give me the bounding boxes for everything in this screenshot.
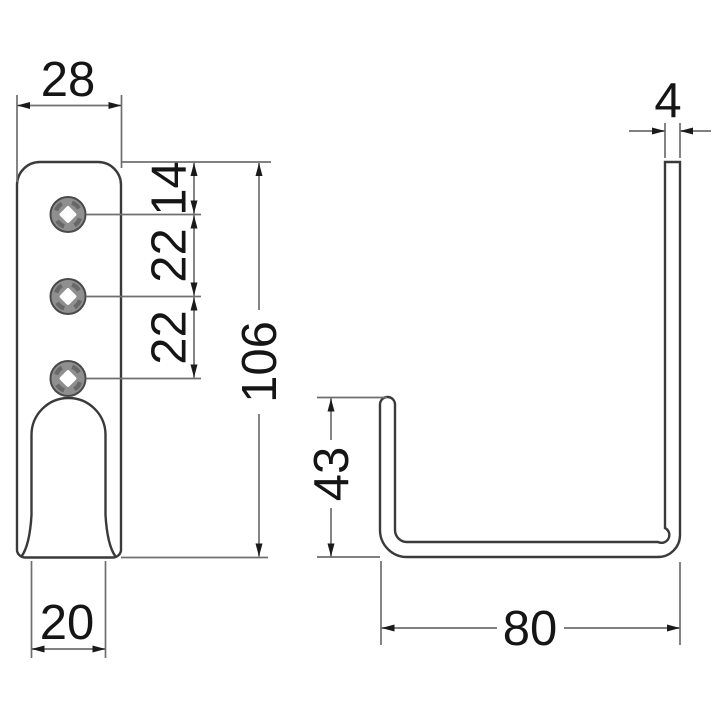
dimension 4: dimension line with outside arrows [629, 130, 711, 132]
svg-text:106: 106 [233, 321, 287, 403]
top edge extension line to the right [121, 161, 271, 163]
side view: hook profile (sheet cross-section) [380, 162, 680, 557]
svg-text:43: 43 [305, 447, 359, 502]
svg-text:22: 22 [143, 310, 197, 365]
dimension 20: dimension line with arrows [32, 648, 106, 650]
dimension 106: dimension line with arrows [258, 163, 260, 557]
screw hole 2 [51, 279, 86, 314]
svg-text:20: 20 [40, 596, 95, 650]
svg-text:14: 14 [143, 161, 197, 216]
dimension 20: extension lines [32, 561, 106, 658]
svg-text:28: 28 [41, 53, 96, 107]
dimension 43: dimension line with arrows [330, 398, 332, 557]
dimension 28: extension lines [17, 95, 122, 182]
hole 3 leader line [86, 378, 201, 380]
dimension 43: extension lines [317, 398, 387, 558]
screw hole 1 [51, 197, 86, 232]
svg-text:4: 4 [654, 74, 681, 128]
dimension 80: dimension line with arrows [381, 627, 680, 629]
dimension 4: extension lines [665, 123, 680, 158]
hole 1 leader line [86, 214, 201, 216]
dimension 28: dimension line with arrows [17, 105, 122, 107]
bottom edge extension line to the right [121, 557, 268, 559]
hole 2 leader line [86, 296, 201, 298]
chain dimension line 14/22/22 [193, 162, 195, 379]
front view: mounting plate outline [17, 162, 121, 558]
svg-text:22: 22 [143, 228, 197, 283]
svg-text:80: 80 [503, 602, 558, 656]
screw hole 3 [51, 361, 86, 396]
front view: stamped hook tongue slot [22, 398, 116, 557]
dimension 80: extension lines [381, 561, 680, 645]
